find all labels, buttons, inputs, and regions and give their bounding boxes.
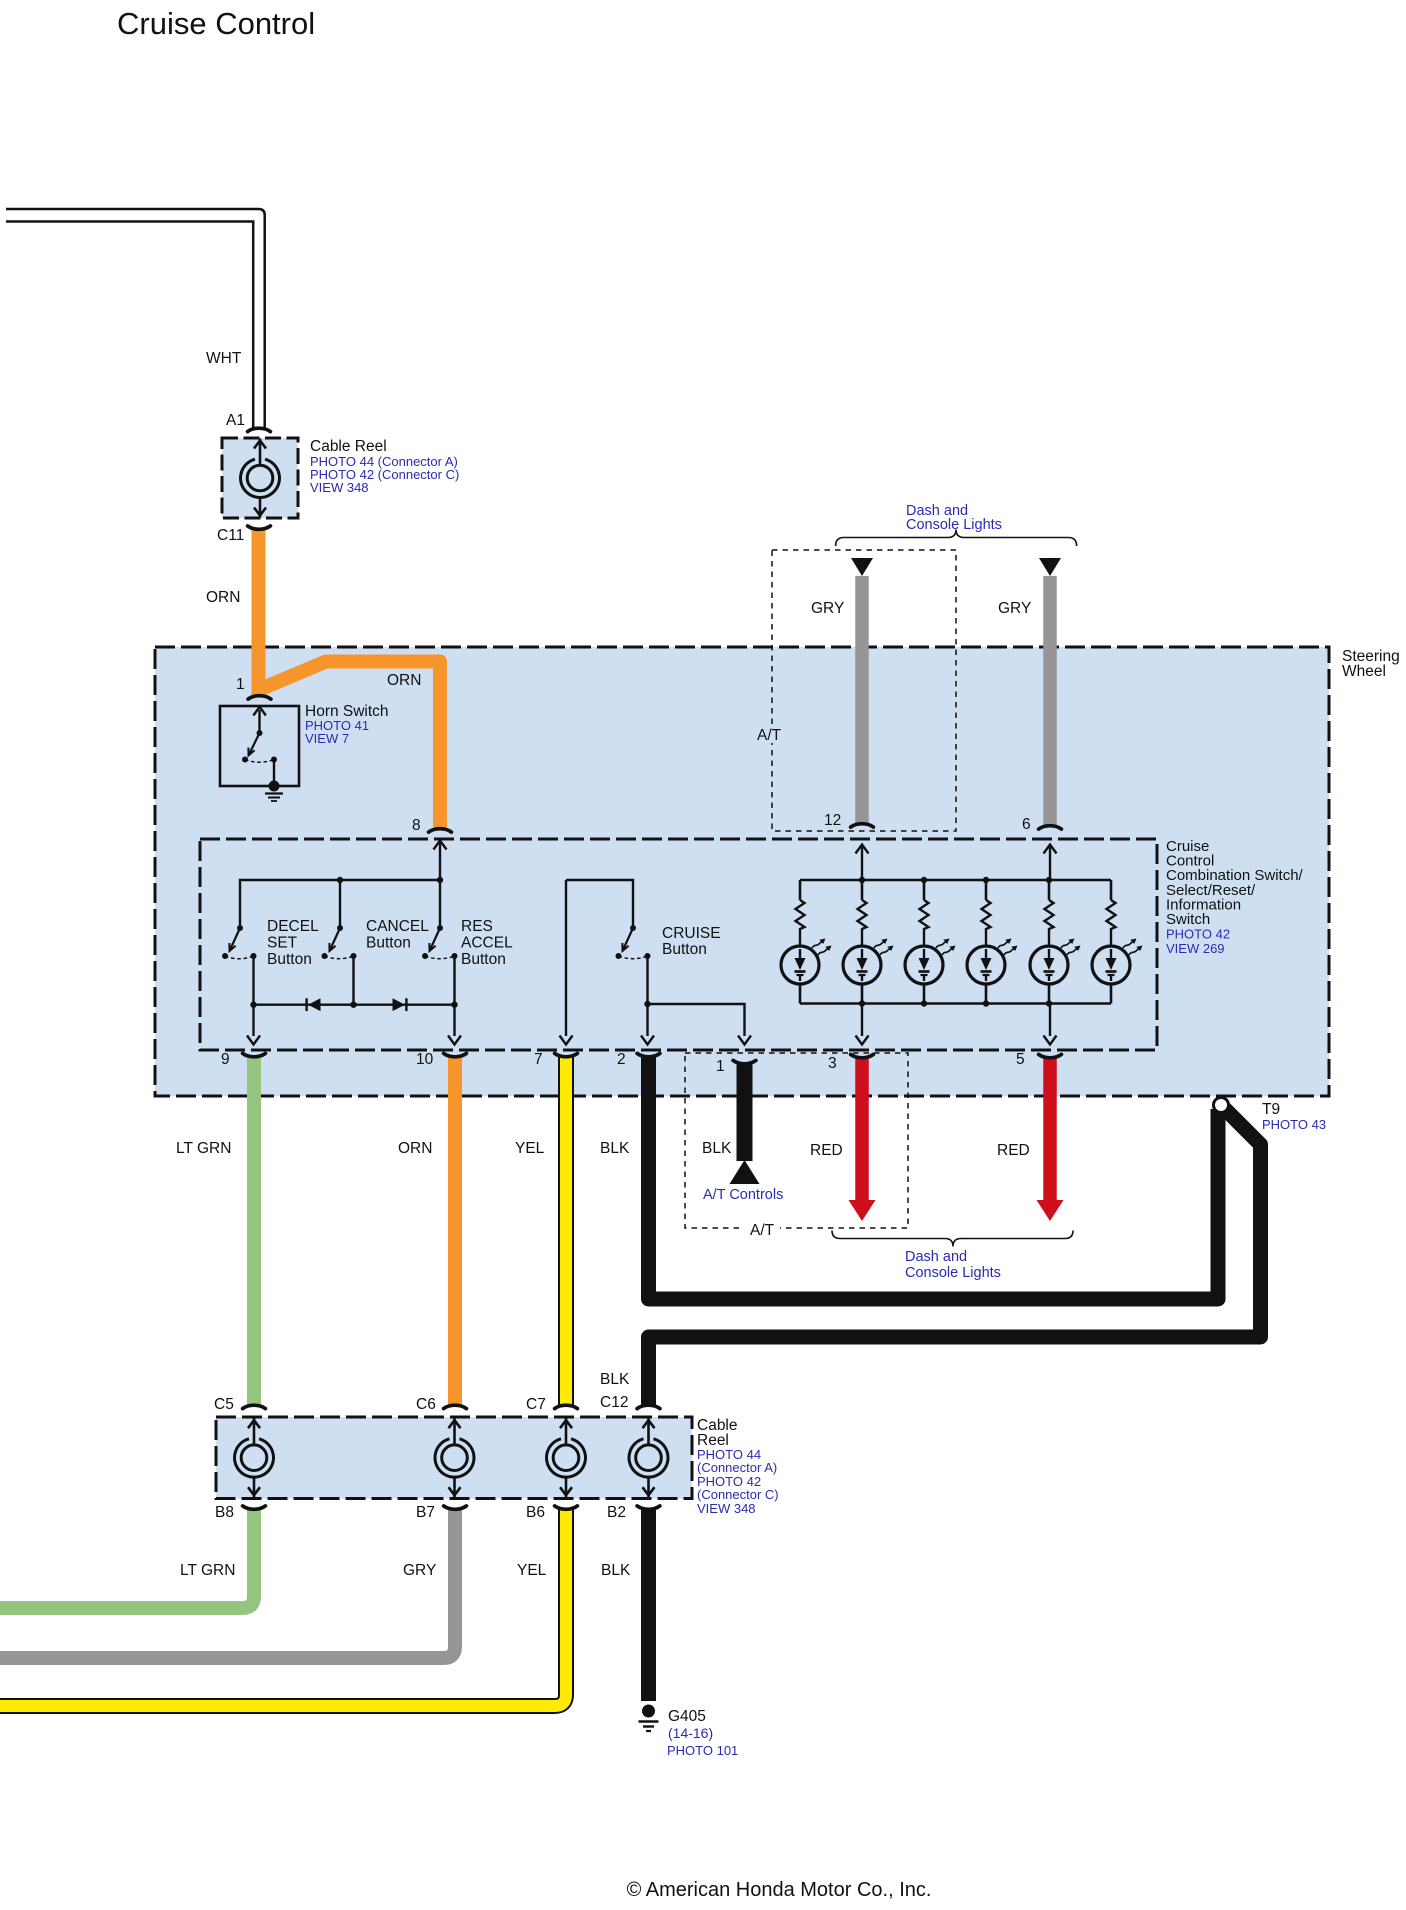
svg-text:YEL: YEL [517,1562,547,1579]
svg-text:WHT: WHT [206,350,242,367]
svg-text:GRY: GRY [403,1562,436,1579]
svg-text:2: 2 [617,1051,626,1068]
svg-text:LT GRN: LT GRN [180,1562,235,1579]
svg-text:Switch: Switch [1166,911,1210,928]
svg-text:BLK: BLK [600,1371,630,1388]
svg-text:ORN: ORN [398,1140,432,1157]
svg-text:B2: B2 [607,1504,626,1521]
svg-text:Cable Reel: Cable Reel [310,438,387,455]
svg-text:PHOTO 42: PHOTO 42 [1166,927,1230,942]
svg-text:9: 9 [221,1051,230,1068]
svg-text:LT GRN: LT GRN [176,1140,231,1157]
svg-text:ORN: ORN [206,589,240,606]
svg-text:Dash and: Dash and [905,1249,967,1265]
svg-text:YEL: YEL [515,1140,545,1157]
svg-text:5: 5 [1016,1051,1025,1068]
svg-text:GRY: GRY [998,600,1031,617]
svg-text:C6: C6 [416,1396,436,1413]
svg-text:Button: Button [366,935,411,952]
svg-text:CRUISE: CRUISE [662,925,721,942]
svg-text:RED: RED [997,1142,1030,1159]
svg-text:Console Lights: Console Lights [906,517,1002,533]
svg-text:PHOTO 101: PHOTO 101 [667,1743,738,1758]
svg-text:VIEW 348: VIEW 348 [310,480,369,495]
svg-text:G405: G405 [668,1708,706,1725]
svg-text:RED: RED [810,1142,843,1159]
svg-text:(Connector C): (Connector C) [697,1487,779,1502]
svg-text:VIEW 348: VIEW 348 [697,1501,756,1516]
svg-text:VIEW 7: VIEW 7 [305,731,349,746]
svg-text:A1: A1 [226,412,245,429]
svg-text:(Connector A): (Connector A) [697,1460,777,1475]
svg-text:Button: Button [461,951,506,968]
svg-text:12: 12 [824,812,841,829]
svg-text:A/T: A/T [757,727,782,744]
svg-text:ACCEL: ACCEL [461,935,513,952]
svg-text:B8: B8 [215,1504,234,1521]
svg-text:RES: RES [461,918,493,935]
svg-text:BLK: BLK [601,1562,631,1579]
svg-text:T9: T9 [1262,1101,1280,1118]
svg-text:DECEL: DECEL [267,918,319,935]
svg-text:GRY: GRY [811,600,844,617]
svg-text:C12: C12 [600,1394,628,1411]
svg-text:C7: C7 [526,1396,546,1413]
svg-text:BLK: BLK [702,1140,732,1157]
svg-text:8: 8 [412,817,421,834]
svg-text:Cruise Control: Cruise Control [117,6,315,41]
svg-text:A/T Controls: A/T Controls [703,1187,783,1203]
svg-text:1: 1 [716,1058,725,1075]
svg-text:7: 7 [534,1051,543,1068]
svg-text:Button: Button [267,951,312,968]
svg-text:Wheel: Wheel [1342,663,1386,680]
svg-text:CANCEL: CANCEL [366,918,429,935]
svg-text:B6: B6 [526,1504,545,1521]
svg-text:Button: Button [662,941,707,958]
svg-text:3: 3 [828,1055,837,1072]
svg-text:A/T: A/T [750,1222,775,1239]
svg-text:1: 1 [236,676,245,693]
svg-text:VIEW 269: VIEW 269 [1166,941,1225,956]
svg-text:SET: SET [267,935,298,952]
svg-text:C11: C11 [217,527,244,544]
svg-text:C5: C5 [214,1396,234,1413]
svg-text:© American Honda Motor Co., In: © American Honda Motor Co., Inc. [627,1879,932,1901]
svg-text:PHOTO 43: PHOTO 43 [1262,1117,1326,1132]
svg-text:ORN: ORN [387,672,421,689]
svg-text:(14-16): (14-16) [668,1725,713,1741]
svg-text:BLK: BLK [600,1140,630,1157]
svg-text:6: 6 [1022,816,1031,833]
svg-text:10: 10 [416,1051,434,1068]
svg-text:Console Lights: Console Lights [905,1265,1001,1281]
svg-text:B7: B7 [416,1504,435,1521]
